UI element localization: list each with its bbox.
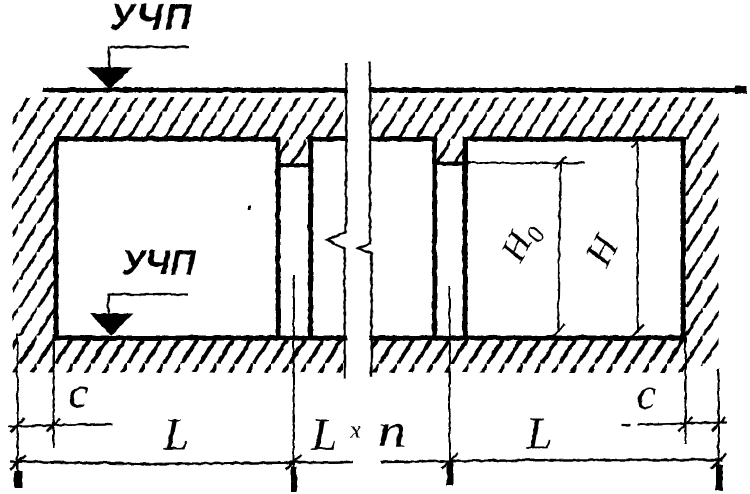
bottom dimension line (10, 460, 722, 464)
svg-text:c: c (636, 369, 656, 418)
hatched ground: left wall (12, 97, 54, 340)
witness line slot1 (292, 275, 294, 480)
witness line pit1 left (52, 333, 54, 447)
H0 witness line (468, 162, 584, 164)
svg-text:x: x (349, 417, 361, 443)
svg-text:n: n (377, 404, 406, 457)
pit 1 outline (56, 139, 278, 338)
H0 dimension line (558, 162, 561, 332)
break line left (327, 63, 346, 378)
C dimension line right (621, 422, 726, 425)
common pit bottom line (54, 335, 686, 340)
pit 3 outline (465, 139, 683, 338)
svg-text:УЧП: УЧП (109, 0, 193, 37)
hatched ground: pier between pit 2 and 3 (436, 135, 463, 165)
witness line left outer (16, 333, 18, 486)
svg-text:L: L (525, 407, 552, 458)
witness line pit3 right (684, 340, 686, 443)
speck in pit1 (248, 205, 251, 209)
svg-text:L: L (162, 408, 189, 459)
H dimension line (636, 141, 638, 332)
witness line slot2 (448, 285, 450, 478)
hatched ground: top band right (371, 97, 683, 139)
floor line (УЧП level) (42, 87, 745, 92)
level mark lower: leader (108, 293, 187, 314)
witness line right outer (717, 368, 719, 488)
hatched ground: bottom band right (371, 340, 686, 372)
svg-text:c: c (68, 368, 88, 417)
level mark lower: triangle (89, 313, 133, 335)
pit 2 outline (310, 139, 434, 338)
break line right (358, 61, 372, 376)
hatched ground: top band left (12, 97, 343, 139)
svg-text:L: L (310, 408, 337, 459)
svg-text:УЧП: УЧП (121, 243, 195, 282)
break gap (347, 55, 369, 380)
hatched ground: bottom band left (12, 340, 343, 372)
C dimension line left (8, 424, 112, 427)
slot 2 top edge (434, 161, 468, 165)
hatched ground: right wall (683, 97, 718, 365)
hatched ground: pier between pit 1 and 2 (279, 135, 308, 165)
level mark top: triangle (86, 67, 132, 89)
level mark top: leader (109, 46, 189, 69)
slot 1 top edge (277, 163, 311, 167)
